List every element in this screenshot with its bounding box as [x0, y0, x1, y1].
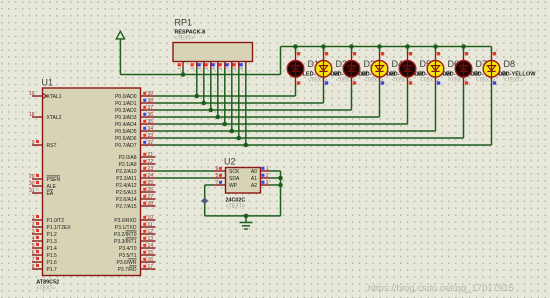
svg-text:P1.6: P1.6 — [47, 260, 58, 266]
power terminal (VCC up-arrow) — [116, 31, 124, 39]
junction LED D6 anode / bus — [433, 44, 438, 49]
U1 pin 1 P1.0/T2 — [32, 215, 65, 224]
resistor pack RP1 reference label — [175, 18, 193, 28]
svg-text:6: 6 — [216, 166, 219, 172]
node marker on WP net — [201, 197, 208, 204]
svg-text:XTAL2: XTAL2 — [47, 115, 62, 121]
U1 pin 8 P1.7 — [32, 264, 57, 273]
U2 body 24C02C — [226, 168, 261, 194]
svg-text:38: 38 — [148, 98, 154, 104]
svg-text:P1.2: P1.2 — [47, 232, 58, 238]
junction LED D2 anode / bus — [321, 44, 326, 49]
junction LED D4 anode / bus — [377, 44, 382, 49]
junction LED D7 anode / bus — [461, 44, 466, 49]
U1 pin 3 P1.2 — [32, 229, 57, 238]
svg-text:P1.1/T2EX: P1.1/T2EX — [47, 225, 72, 231]
svg-text:9: 9 — [32, 140, 35, 146]
junction RP1 pin 9 / P0.7 net — [244, 143, 249, 148]
wire U2 A0 to ground riser — [270, 170, 281, 172]
U1 pin 39 P0.0/AD0 — [115, 91, 155, 100]
svg-text:1: 1 — [266, 166, 269, 172]
svg-text:RP1: RP1 — [175, 18, 193, 28]
EEPROM U2 reference label — [224, 157, 236, 167]
svg-text:29: 29 — [29, 174, 35, 180]
svg-text:A0: A0 — [251, 169, 257, 175]
svg-text:2: 2 — [191, 68, 195, 70]
svg-text:P0.6/AD6: P0.6/AD6 — [115, 136, 137, 142]
svg-text:22: 22 — [148, 159, 154, 165]
junction LED D1 anode / bus — [293, 44, 298, 49]
svg-text:<TEXT>: <TEXT> — [420, 77, 439, 83]
U1 pin 11 P3.1/TXD — [115, 222, 156, 231]
LED D6 (on) — [427, 47, 444, 132]
svg-text:U1: U1 — [42, 78, 54, 88]
svg-text:P3.2/INT0: P3.2/INT0 — [114, 232, 137, 238]
svg-text:13: 13 — [148, 236, 154, 242]
svg-text:P2.4/A12: P2.4/A12 — [116, 183, 137, 189]
wire net P0.3 from U1 pin 36 to LED D4 cathode drop — [156, 116, 380, 118]
U1 pin 19 XTAL1 (clock input) — [29, 91, 62, 100]
LED D3 (off) — [343, 47, 360, 111]
RP1 pin 1 (common) stub and indicator — [178, 62, 184, 70]
U1 pin 14 P3.4/T0 — [119, 243, 156, 252]
U1 pin 28 P2.7/A15 — [116, 201, 156, 210]
svg-text:P0.1/AD1: P0.1/AD1 — [115, 101, 137, 107]
svg-text:P3.3/INT1: P3.3/INT1 — [114, 239, 137, 245]
svg-text:39: 39 — [148, 91, 154, 97]
U1 <TEXT> placeholder — [36, 286, 55, 292]
wire net P0.1 from U1 pin 38 to LED D2 cathode drop — [156, 102, 324, 104]
svg-text:2: 2 — [32, 222, 35, 228]
svg-text:PSEN: PSEN — [47, 177, 61, 183]
U1 pin 32 P0.7/AD7 — [115, 140, 155, 149]
U1 pin 16 P3.6/WR — [116, 257, 155, 266]
svg-text:<TEXT>: <TEXT> — [448, 77, 467, 83]
U1 pin 35 P0.4/AD4 — [115, 119, 155, 128]
junction RP1 pin 3 / P0.1 net — [202, 101, 207, 106]
RP1 pin 3 stub and indicator — [198, 62, 204, 70]
RP1 pin 2 stub and indicator — [191, 62, 197, 70]
wire net P0.2 from U1 pin 37 to LED D3 cathode drop — [156, 109, 352, 111]
U1 pin 15 P3.5/T1 — [119, 250, 156, 259]
U2 pin 1 A0 — [251, 166, 270, 175]
svg-text:6: 6 — [219, 68, 223, 70]
svg-text:<TEXT>: <TEXT> — [336, 77, 355, 83]
RP1 pin 6 stub and indicator — [219, 62, 225, 70]
LED D4 (on) — [371, 47, 388, 118]
svg-text:XTAL1: XTAL1 — [47, 94, 62, 100]
U1 pin 23 P2.2/A10 — [116, 166, 156, 175]
svg-text:WP: WP — [229, 183, 238, 189]
junction ground bus / ground symbol — [244, 214, 249, 219]
U1 pin 30 ALE — [29, 181, 57, 190]
U1 pin 9 RST — [32, 140, 57, 149]
wire RP1 pin 7 down to P0.5 net — [231, 69, 233, 132]
U1 pin 37 P0.2/AD2 — [115, 105, 155, 114]
svg-text:37: 37 — [148, 105, 154, 111]
svg-text:1: 1 — [178, 68, 182, 70]
wire U1 P2.2/A10 (pin23) to U2 SCK — [156, 170, 215, 172]
svg-text:P3.1/TXD: P3.1/TXD — [115, 225, 137, 231]
svg-text:P2.5/A13: P2.5/A13 — [116, 190, 137, 196]
svg-text:28: 28 — [148, 201, 154, 207]
svg-text:5: 5 — [216, 173, 219, 179]
svg-text:P0.3/AD3: P0.3/AD3 — [115, 115, 137, 121]
svg-text:P2.6/A14: P2.6/A14 — [116, 197, 137, 203]
svg-text:7: 7 — [226, 68, 230, 70]
svg-text:P3.6/WR: P3.6/WR — [116, 260, 136, 266]
U1 pin 26 P2.5/A13 — [116, 187, 156, 196]
svg-text:9: 9 — [240, 68, 244, 70]
wire net P0.7 from U1 pin 32 to LED D8 cathode drop — [156, 144, 492, 146]
wire ground riser vertical at x=280 — [280, 171, 282, 216]
svg-text:34: 34 — [148, 126, 154, 132]
U1 pin 2 P1.1/T2EX — [32, 222, 72, 231]
svg-text:24: 24 — [148, 173, 154, 179]
svg-text:<TEXT>: <TEXT> — [504, 77, 523, 83]
U1 pin 4 P1.3 — [32, 236, 57, 245]
RP1 pin 8 stub and indicator — [233, 62, 239, 70]
junction RP1 pin 2 / P0.0 net — [195, 94, 200, 99]
svg-text:P1.5: P1.5 — [47, 253, 58, 259]
svg-text:P3.5/T1: P3.5/T1 — [119, 253, 137, 259]
RP1 <TEXT> placeholder — [175, 36, 194, 42]
microcontroller U1 reference label — [42, 78, 54, 88]
svg-text:8: 8 — [32, 264, 35, 270]
svg-text:P0.5/AD5: P0.5/AD5 — [115, 129, 137, 135]
svg-text:4: 4 — [32, 236, 35, 242]
svg-text:24C02C: 24C02C — [226, 197, 246, 203]
svg-text:5: 5 — [32, 243, 35, 249]
svg-text:21: 21 — [148, 152, 154, 158]
RP1 pin 7 stub and indicator — [226, 62, 232, 70]
RP1 pin 4 stub and indicator — [205, 62, 211, 70]
U1 pin 27 P2.6/A14 — [116, 194, 156, 203]
svg-text:P1.7: P1.7 — [47, 267, 58, 273]
U2 pin 3 A2 — [251, 180, 270, 189]
svg-text:7: 7 — [216, 180, 219, 186]
junction RP1 pin 5 / P0.3 net — [216, 115, 221, 120]
LED D4 labels — [387, 59, 425, 83]
junction RP1 pin 4 / P0.2 net — [209, 108, 214, 113]
junction A1 / riser — [278, 176, 283, 181]
U1 body AT89C52 — [43, 88, 141, 276]
U1 pin 29 PSEN — [29, 174, 61, 183]
svg-text:6: 6 — [32, 250, 35, 256]
svg-text:U2: U2 — [224, 157, 236, 167]
wire RP1 pin 9 down to P0.7 net — [245, 69, 247, 146]
wire net P0.5 from U1 pin 34 to LED D6 cathode drop — [156, 130, 436, 132]
junction RP1 pin 8 / P0.6 net — [237, 136, 242, 141]
svg-text:12: 12 — [148, 229, 154, 235]
svg-text:SCK: SCK — [229, 169, 240, 175]
svg-text:D8: D8 — [504, 59, 516, 69]
svg-text:RST: RST — [47, 143, 57, 149]
U1 pin 12 P3.2/INT0 — [114, 229, 156, 238]
wire ground bus horizontal — [205, 215, 281, 217]
wire power arrow stem down to rail — [119, 39, 121, 75]
svg-text:<TEXT>: <TEXT> — [308, 77, 327, 83]
wire net P0.4 from U1 pin 35 to LED D5 cathode drop — [156, 123, 408, 125]
svg-text:17: 17 — [148, 264, 154, 270]
svg-text:36: 36 — [148, 112, 154, 118]
svg-text:11: 11 — [148, 222, 153, 228]
LED D1 (off) — [287, 47, 304, 97]
wire RP1 pin 4 down to P0.2 net — [210, 69, 212, 111]
svg-text:<TEXT>: <TEXT> — [476, 77, 495, 83]
wire RP1 pin 8 down to P0.6 net — [238, 69, 240, 139]
junction A2 / riser — [278, 183, 283, 188]
svg-text:10: 10 — [148, 215, 154, 221]
junction LED D3 anode / bus — [349, 44, 354, 49]
wire net P0.6 from U1 pin 33 to LED D7 cathode drop — [156, 137, 464, 139]
RP1 value label RESPACK-8 — [175, 30, 206, 36]
U2 pin 7 WP — [214, 180, 238, 189]
junction LED D5 anode / bus — [405, 44, 410, 49]
U1 pin 22 P2.1/A9 — [119, 159, 156, 168]
U1 pin 7 P1.6 — [32, 257, 57, 266]
svg-text:<TEXT>: <TEXT> — [392, 77, 411, 83]
LED D2 labels — [331, 59, 369, 83]
svg-text:<TEXT>: <TEXT> — [364, 77, 383, 83]
U2 pin 5 SDA — [214, 173, 240, 182]
svg-text:A2: A2 — [251, 183, 257, 189]
wire net P0.0 from U1 pin 39 to LED D1 cathode drop — [156, 95, 296, 97]
U1 pin 18 XTAL2 — [29, 112, 62, 121]
U1 pin 5 P1.4 — [32, 243, 57, 252]
svg-text:P1.4: P1.4 — [47, 246, 58, 252]
svg-text:23: 23 — [148, 166, 154, 172]
wire RP1 pin 3 down to P0.1 net — [203, 69, 205, 104]
svg-text:16: 16 — [148, 257, 154, 263]
svg-text:8: 8 — [233, 68, 237, 70]
U1 pin 17 P3.7/RD — [118, 264, 156, 273]
svg-text:18: 18 — [29, 112, 35, 118]
junction RP1 pin 6 / P0.4 net — [223, 122, 228, 127]
wire RP1 pin 5 down to P0.3 net — [217, 69, 219, 118]
svg-text:30: 30 — [29, 181, 35, 187]
svg-text:P0.4/AD4: P0.4/AD4 — [115, 122, 137, 128]
wire U2 A2 to ground riser — [270, 184, 281, 186]
RP1 pin 9 stub and indicator — [240, 62, 246, 70]
wire U2 WP left segment — [205, 184, 214, 186]
svg-text:3: 3 — [198, 68, 202, 70]
wire WP drop vertical — [204, 185, 206, 216]
svg-text:P1.3: P1.3 — [47, 239, 58, 245]
svg-text:<TEXT>: <TEXT> — [36, 286, 55, 292]
svg-text:35: 35 — [148, 119, 154, 125]
U1 pin 31 EA — [29, 188, 54, 197]
svg-text:EA: EA — [47, 191, 54, 197]
wire RP1 pin 2 down to P0.0 net — [196, 69, 198, 97]
wire power rail horizontal to LED bus riser — [120, 74, 280, 76]
svg-text:2: 2 — [266, 173, 269, 179]
junction RP1 pin1 / power rail — [181, 72, 186, 77]
svg-text:5: 5 — [212, 68, 216, 70]
LED D5 labels — [415, 59, 453, 83]
svg-text:P2.0/A8: P2.0/A8 — [119, 155, 137, 161]
svg-text:26: 26 — [148, 187, 154, 193]
svg-text:33: 33 — [148, 133, 154, 139]
svg-text:P0.2/AD2: P0.2/AD2 — [115, 108, 137, 114]
LED D7 (off) — [455, 47, 472, 139]
svg-text:P2.2/A10: P2.2/A10 — [116, 169, 137, 175]
svg-text:31: 31 — [29, 188, 35, 194]
svg-text:<TEXT>: <TEXT> — [226, 204, 245, 210]
svg-text:P0.7/AD7: P0.7/AD7 — [115, 143, 137, 149]
svg-text:4: 4 — [205, 68, 209, 70]
U1 pin 25 P2.4/A12 — [116, 180, 156, 189]
svg-text:P1.0/T2: P1.0/T2 — [47, 218, 65, 224]
U1 pin 24 P2.3/A11 — [116, 173, 155, 182]
svg-text:1: 1 — [32, 215, 35, 221]
U1 pin 36 P0.3/AD3 — [115, 112, 155, 121]
wire riser up at x=280 to LED anode bus — [280, 47, 282, 75]
LED D2 (on) — [315, 47, 332, 104]
svg-text:SDA: SDA — [229, 176, 240, 182]
watermark text — [368, 283, 514, 294]
RP1 body RESPACK-8 — [173, 43, 253, 62]
junction RP1 pin 7 / P0.5 net — [230, 129, 235, 134]
LED D6 labels — [443, 59, 481, 83]
svg-text:3: 3 — [32, 229, 35, 235]
LED D1 labels — [303, 59, 341, 83]
U2 value label 24C02C — [226, 197, 246, 203]
svg-text:7: 7 — [32, 257, 35, 263]
wire RP1 pin1 to power rail — [182, 69, 184, 75]
U1 pin 21 P2.0/A8 — [119, 152, 156, 161]
svg-text:15: 15 — [148, 250, 154, 256]
wire U2 A1 to ground riser — [270, 177, 281, 179]
svg-text:P3.4/T0: P3.4/T0 — [119, 246, 137, 252]
svg-text:ALE: ALE — [47, 184, 57, 190]
wire RP1 pin 6 down to P0.4 net — [224, 69, 226, 125]
svg-text:P3.0/RXD: P3.0/RXD — [114, 218, 137, 224]
U2 <TEXT> placeholder — [226, 204, 245, 210]
U2 pin 2 A1 — [251, 173, 270, 182]
svg-text:A1: A1 — [251, 176, 257, 182]
wire LED anode bus horizontal — [281, 46, 492, 48]
LED D5 (off) — [399, 47, 416, 125]
U1 pin 13 P3.3/INT1 — [114, 236, 156, 245]
svg-text:P2.7/A15: P2.7/A15 — [116, 204, 137, 210]
U1 pin 34 P0.5/AD5 — [115, 126, 155, 135]
svg-text:P2.1/A9: P2.1/A9 — [119, 162, 137, 168]
svg-text:P2.3/A11: P2.3/A11 — [116, 176, 136, 182]
LED D7 labels — [471, 59, 509, 83]
svg-text:25: 25 — [148, 180, 154, 186]
svg-text:https://blog.csdn.net/qq_17017: https://blog.csdn.net/qq_17017915 — [368, 283, 514, 294]
svg-text:3: 3 — [266, 180, 269, 186]
svg-text:32: 32 — [148, 140, 154, 146]
LED D8 (on) — [483, 47, 500, 146]
svg-text:14: 14 — [148, 243, 154, 249]
wire U1 P2.3/A11 (pin24) to U2 SDA — [156, 177, 215, 179]
ground symbol — [240, 216, 253, 229]
svg-text:19: 19 — [29, 91, 35, 97]
U1 pin 38 P0.1/AD1 — [115, 98, 155, 107]
svg-text:P0.0/AD0: P0.0/AD0 — [115, 94, 137, 100]
U1 value label AT89C52 — [36, 280, 59, 286]
U1 pin 33 P0.6/AD6 — [115, 133, 155, 142]
svg-text:<TEXT>: <TEXT> — [175, 36, 194, 42]
U1 pin 10 P3.0/RXD — [114, 215, 155, 224]
LED D8 labels — [499, 59, 537, 83]
RP1 pin 5 stub and indicator — [212, 62, 218, 70]
U1 pin 6 P1.5 — [32, 250, 57, 259]
U2 pin 6 SCK — [214, 166, 240, 175]
svg-text:27: 27 — [148, 194, 154, 200]
svg-text:P3.7/RD: P3.7/RD — [118, 267, 137, 273]
LED D3 labels — [359, 59, 397, 83]
